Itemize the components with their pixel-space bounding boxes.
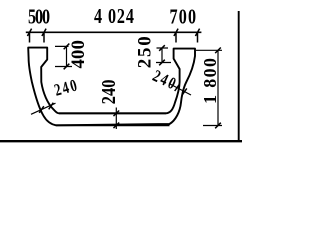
top dim tick at x=29.5 with extension stub <box>27 29 31 43</box>
right web 240 dimension line <box>169 84 191 96</box>
1800 dimension: extension lines and vertical dim line <box>196 50 222 125</box>
dimension label 500 <box>28 5 50 29</box>
page border bottom <box>0 140 242 142</box>
top dim tick at x=44 with extension stub <box>42 29 46 43</box>
svg-text:240: 240 <box>97 80 119 105</box>
slab 240 dimension line <box>115 108 117 130</box>
dimension label 4 024 <box>94 5 134 29</box>
left web 240 dimension line <box>31 103 56 114</box>
svg-text:500: 500 <box>28 5 50 29</box>
svg-text:240: 240 <box>53 77 79 100</box>
dimension label 400 (rotated) <box>68 40 89 69</box>
right web 240 dimension ticks <box>175 84 187 95</box>
slab 240 dimension ticks <box>113 110 119 128</box>
svg-text:700: 700 <box>170 5 197 29</box>
channel cross-section outline (kerbs, webs, bottom slab) <box>28 48 195 126</box>
250 dimension ticks <box>159 45 165 65</box>
dimension label 240 (slab, rotated) <box>97 80 119 105</box>
dimension label 700 <box>170 5 197 29</box>
top dim tick at x=197.5 with extension stub <box>195 29 199 43</box>
dimension label 240 (right web, tilted) <box>150 67 179 93</box>
dimension label 1 800 (rotated) <box>200 58 220 104</box>
svg-text:240: 240 <box>150 67 179 93</box>
slab top surface line <box>59 112 166 114</box>
dimension label 240 (left web, tilted) <box>53 77 79 100</box>
left web 240 dimension ticks <box>39 103 53 113</box>
svg-text:250: 250 <box>135 36 156 68</box>
svg-text:4 024: 4 024 <box>94 5 134 29</box>
slab bottom surface line <box>56 124 170 126</box>
top dimension line <box>26 31 202 33</box>
400 dimension: reference lines and vertical dim line <box>55 46 72 66</box>
svg-text:1 800: 1 800 <box>200 58 220 104</box>
250 dimension: reference lines and vertical dim line <box>156 48 171 63</box>
400 dimension ticks <box>64 44 70 70</box>
top dim tick at x=176 with extension stub <box>174 29 178 43</box>
page border right <box>238 11 240 141</box>
dimension label 250 (rotated) <box>135 36 156 68</box>
svg-text:400: 400 <box>68 40 89 69</box>
1800 dimension ticks <box>215 47 221 128</box>
